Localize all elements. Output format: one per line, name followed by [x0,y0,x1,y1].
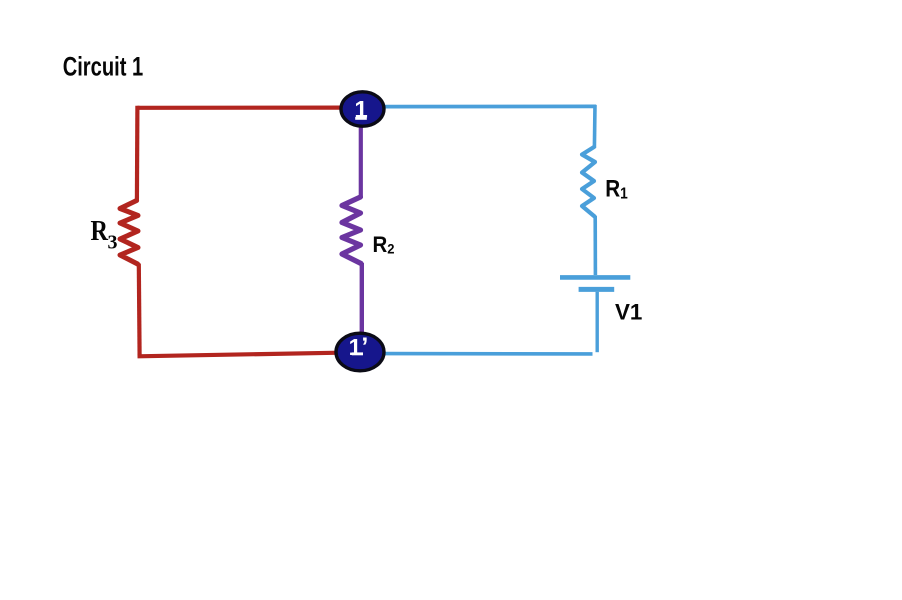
resistor R3 [120,201,138,265]
wire: purple upper segment (node 1 to R2) [359,122,363,198]
svg-text:1’: 1’ [349,333,369,361]
svg-text:3: 3 [108,232,118,254]
resistor R1 [582,147,595,217]
svg-text:R2: R2 [373,232,395,257]
wire: red left vertical lower (R3 down to bottom corner) [137,264,142,357]
battery V1: short plate [579,287,615,292]
battery V1: long plate [560,275,630,280]
wire: purple lower segment (R2 to node 1') [360,263,364,336]
node 1' [336,333,384,371]
wire: blue top segment (node 1 to top-right corner) [384,105,596,109]
wire: red top segment (top-left corner to node 1) [137,105,344,109]
svg-text:Circuit 1: Circuit 1 [63,52,144,82]
svg-text:R1: R1 [605,176,628,203]
wire: blue right vertical middle (R1 down to battery) [593,216,597,275]
wire: blue right vertical upper (corner down to R1) [593,105,597,148]
wire: red left vertical upper (corner down to R3) [135,106,140,202]
wire: red bottom segment (corner to node 1') [138,353,341,357]
wire: blue bottom segment (node 1' to bottom-right corner) [384,352,593,356]
svg-text:V1: V1 [615,300,642,325]
node 1 [341,92,384,126]
svg-text:R: R [91,216,109,247]
wire: blue right vertical lower (battery down to bottom corner) [596,292,599,352]
resistor R2 [342,197,361,264]
